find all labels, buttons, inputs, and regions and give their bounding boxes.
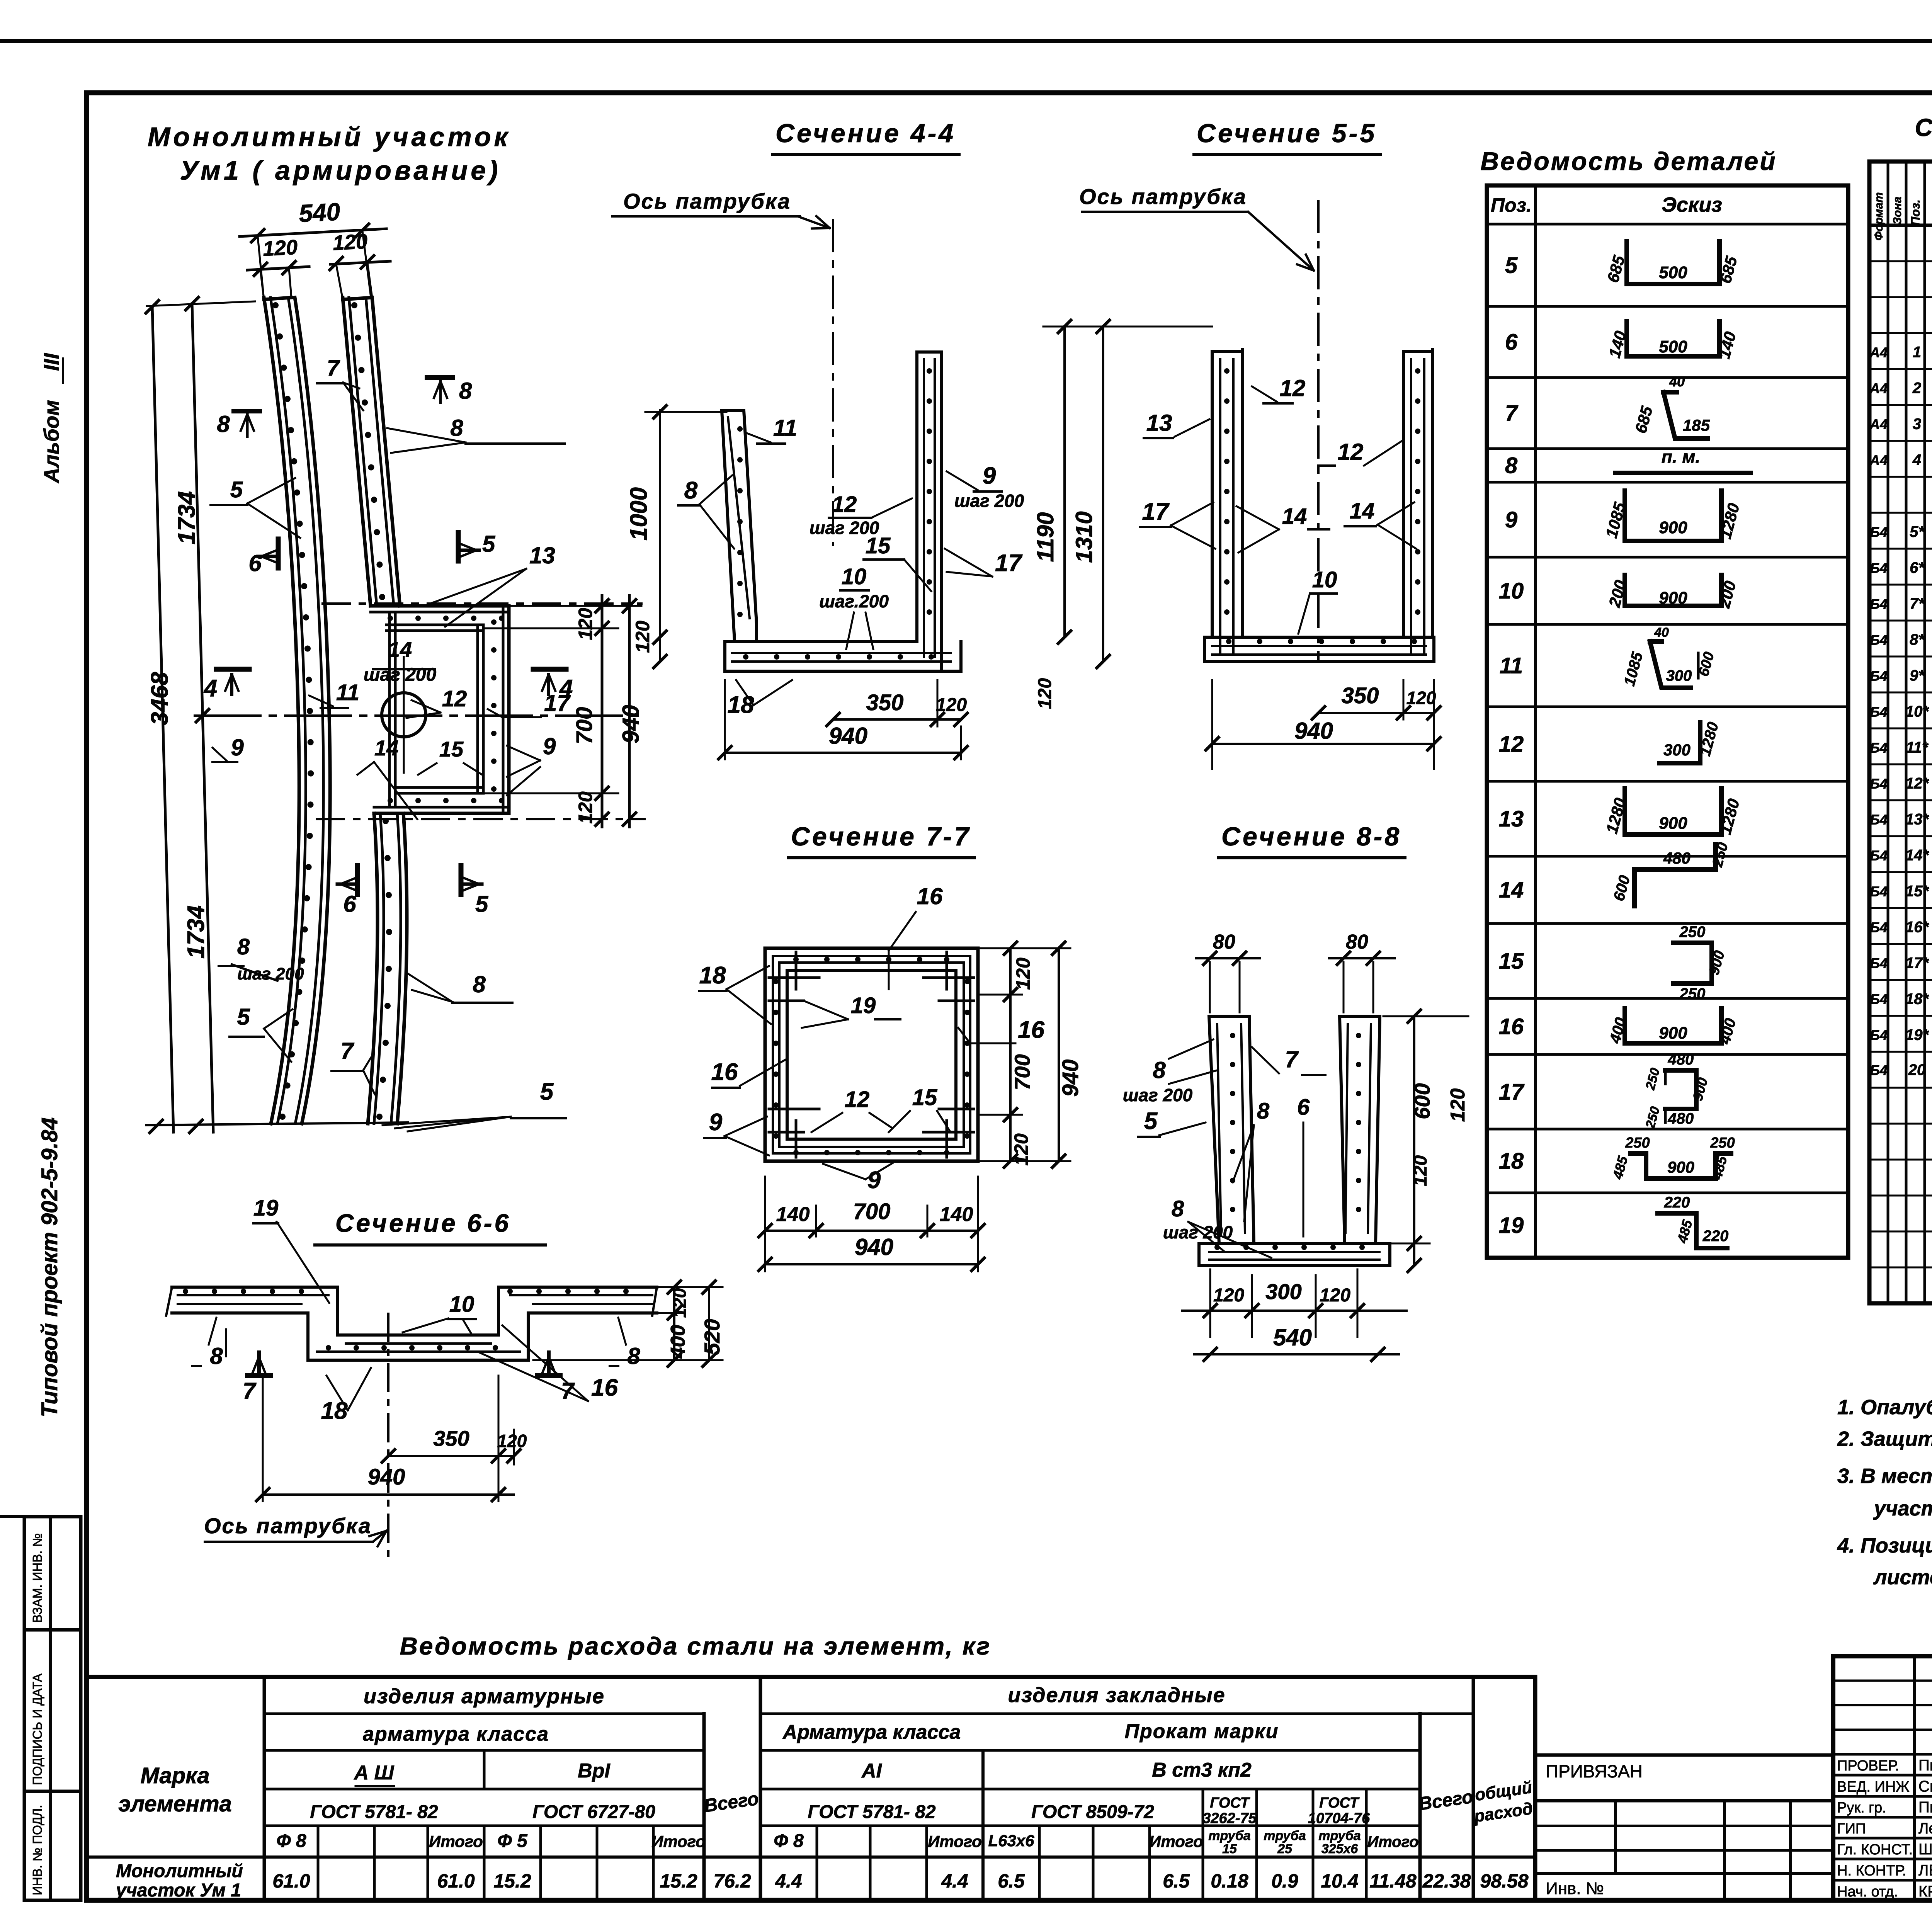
svg-text:Б4: Б4 xyxy=(1870,740,1888,756)
svg-text:40: 40 xyxy=(1654,625,1669,640)
svg-text:Итого: Итого xyxy=(651,1832,706,1850)
svg-text:900: 900 xyxy=(1659,588,1687,607)
svg-text:600: 600 xyxy=(1410,1083,1434,1119)
svg-text:120: 120 xyxy=(1012,957,1034,990)
svg-text:ГОСТ 5781- 82: ГОСТ 5781- 82 xyxy=(310,1802,438,1822)
svg-text:Итого: Итого xyxy=(1149,1832,1203,1850)
sec66 dims right xyxy=(673,1287,675,1360)
svg-text:120: 120 xyxy=(632,621,653,653)
svg-text:12*: 12* xyxy=(1905,775,1929,792)
svg-text:А4: А4 xyxy=(1869,452,1888,468)
svg-text:250: 250 xyxy=(1679,923,1706,940)
svg-text:7*: 7* xyxy=(1910,595,1925,612)
svg-text:120: 120 xyxy=(670,1288,690,1318)
svg-text:15: 15 xyxy=(439,737,464,761)
sec55 left wall xyxy=(1211,352,1214,637)
svg-text:11*: 11* xyxy=(1906,739,1929,756)
title block xyxy=(1833,1656,1932,1900)
svg-text:19: 19 xyxy=(1499,1213,1524,1238)
svg-text:Поз.: Поз. xyxy=(1491,194,1532,216)
plan dim 540 xyxy=(240,229,386,236)
svg-text:Ведомость расхода стали на: Ведомость расхода стали на элемент, кг xyxy=(400,1632,992,1660)
plan dims right 120 700 120 940 xyxy=(601,595,604,827)
svg-text:Б4: Б4 xyxy=(1870,992,1888,1007)
svg-text:120: 120 xyxy=(575,791,596,824)
svg-text:15: 15 xyxy=(912,1085,937,1110)
svg-text:5: 5 xyxy=(1144,1108,1158,1134)
svg-text:8: 8 xyxy=(210,1343,223,1369)
svg-text:Левина: Левина xyxy=(1918,1820,1932,1837)
svg-text:7: 7 xyxy=(243,1378,257,1404)
svg-text:940: 940 xyxy=(618,705,644,743)
svg-text:листе.: листе. xyxy=(1873,1566,1932,1589)
sec44 dim 1000 xyxy=(659,410,661,662)
svg-text:Б4: Б4 xyxy=(1870,812,1888,828)
svg-text:элемента: элемента xyxy=(118,1791,232,1816)
sec55 dims bottom xyxy=(1318,712,1434,714)
svg-text:480: 480 xyxy=(1668,1051,1694,1068)
svg-text:ШАПИРО: ШАПИРО xyxy=(1918,1841,1932,1858)
svg-text:61.0: 61.0 xyxy=(272,1870,310,1892)
svg-text:Монолитный участок: Монолитный участок xyxy=(148,122,511,152)
svg-text:13*: 13* xyxy=(1905,811,1929,828)
svg-text:ГОСТ: ГОСТ xyxy=(1319,1795,1359,1811)
top edge line xyxy=(0,39,1932,43)
svg-text:Ф 8: Ф 8 xyxy=(774,1831,804,1851)
svg-text:17: 17 xyxy=(995,550,1022,577)
svg-text:120: 120 xyxy=(1406,688,1436,708)
svg-text:ЛЕВИНА: ЛЕВИНА xyxy=(1918,1862,1932,1879)
svg-text:6: 6 xyxy=(1297,1095,1310,1120)
svg-text:300: 300 xyxy=(1666,667,1692,684)
svg-text:900: 900 xyxy=(1659,1024,1687,1043)
svg-text:500: 500 xyxy=(1659,263,1687,282)
svg-text:17*: 17* xyxy=(1905,955,1929,972)
svg-text:8: 8 xyxy=(459,378,472,404)
sec77 dims right xyxy=(1009,948,1012,1161)
svg-text:7: 7 xyxy=(1285,1046,1299,1072)
svg-text:16: 16 xyxy=(591,1374,618,1401)
svg-text:1. Опалубочный чертеж см.: 1. Опалубочный чертеж см. лист xyxy=(1837,1396,1932,1419)
plan dims 120 120 top xyxy=(247,267,309,270)
svg-text:шаг 200: шаг 200 xyxy=(237,964,304,983)
svg-text:22.38: 22.38 xyxy=(1422,1870,1471,1892)
svg-text:12: 12 xyxy=(832,492,857,517)
svg-text:9: 9 xyxy=(983,463,996,489)
svg-text:ИНВ. № ПОДЛ.: ИНВ. № ПОДЛ. xyxy=(30,1805,44,1895)
svg-text:325х6: 325х6 xyxy=(1321,1842,1359,1856)
svg-text:350: 350 xyxy=(1342,683,1379,708)
svg-text:0.9: 0.9 xyxy=(1271,1870,1298,1892)
svg-text:8: 8 xyxy=(237,934,250,959)
svg-text:АI: АI xyxy=(861,1760,883,1782)
svg-text:4: 4 xyxy=(1912,452,1921,469)
pipe circle xyxy=(382,693,426,737)
sec44 right wall xyxy=(915,352,918,641)
sec88 slab xyxy=(1199,1242,1390,1245)
svg-text:12: 12 xyxy=(1280,375,1306,401)
svg-text:11: 11 xyxy=(1500,653,1523,679)
section marks 5 xyxy=(456,532,461,561)
svg-text:12: 12 xyxy=(442,686,467,711)
svg-text:4. Позиции * - см. ведомост: 4. Позиции * - см. ведомость деталей на … xyxy=(1837,1534,1932,1557)
plan right wall lower xyxy=(368,813,378,1124)
svg-text:18: 18 xyxy=(321,1398,348,1424)
svg-text:3. В местах излома днища и: 3. В местах излома днища и стен монолитн… xyxy=(1837,1464,1932,1488)
svg-text:Сечение 8-8: Сечение 8-8 xyxy=(1221,822,1401,851)
svg-text:арматура класса: арматура класса xyxy=(363,1723,549,1745)
svg-text:Итого: Итого xyxy=(429,1832,483,1850)
plan bottom extension xyxy=(146,1122,408,1125)
svg-text:Б4: Б4 xyxy=(1870,776,1888,792)
ved table grid xyxy=(1487,185,1848,1258)
fold axis lines xyxy=(323,602,641,605)
svg-text:КРАСАВИН: КРАСАВИН xyxy=(1918,1883,1932,1900)
svg-text:17: 17 xyxy=(1499,1080,1525,1105)
svg-text:16: 16 xyxy=(711,1059,738,1085)
svg-text:ВрI: ВрI xyxy=(578,1760,611,1782)
svg-text:14: 14 xyxy=(374,736,398,760)
svg-text:5: 5 xyxy=(540,1078,554,1105)
svg-text:11: 11 xyxy=(773,415,797,441)
privyazan box xyxy=(1535,1753,1833,1757)
svg-text:700: 700 xyxy=(853,1199,891,1224)
svg-text:ПОДПИСЬ И ДАТА: ПОДПИСЬ И ДАТА xyxy=(30,1673,44,1785)
svg-text:15: 15 xyxy=(1222,1842,1237,1856)
svg-text:Б4: Б4 xyxy=(1870,560,1888,576)
svg-text:ВЗАМ. ИНВ. №: ВЗАМ. ИНВ. № xyxy=(30,1533,44,1623)
svg-text:16: 16 xyxy=(1499,1014,1524,1039)
svg-text:Письман: Письман xyxy=(1918,1799,1932,1816)
svg-text:Б4: Б4 xyxy=(1870,956,1888,971)
svg-text:1734: 1734 xyxy=(183,905,209,959)
svg-text:250: 250 xyxy=(1625,1135,1650,1151)
svg-text:труба: труба xyxy=(1208,1828,1250,1843)
sec55 bottom slab xyxy=(1204,636,1434,639)
svg-text:1: 1 xyxy=(1913,344,1921,361)
sec66 left slab xyxy=(172,1286,338,1289)
svg-text:Эскиз: Эскиз xyxy=(1662,193,1722,216)
svg-text:Марка: Марка xyxy=(140,1763,209,1788)
plan right wall upper xyxy=(343,298,372,299)
svg-text:А4: А4 xyxy=(1869,417,1888,432)
svg-text:3: 3 xyxy=(1913,416,1921,433)
svg-text:2. Защитный слой бетона -: 2. Защитный слой бетона - 20мм. xyxy=(1837,1427,1932,1451)
svg-text:В ст3 кп2: В ст3 кп2 xyxy=(1152,1759,1252,1781)
svg-text:Сечение 6-6: Сечение 6-6 xyxy=(335,1209,511,1237)
svg-text:900: 900 xyxy=(1659,518,1687,537)
svg-text:15.2: 15.2 xyxy=(493,1870,531,1892)
sec88 dims right xyxy=(1413,1016,1415,1265)
svg-text:120: 120 xyxy=(332,230,368,255)
svg-text:Сечение 7-7: Сечение 7-7 xyxy=(791,822,971,851)
svg-text:ПРИВЯЗАН: ПРИВЯЗАН xyxy=(1546,1761,1643,1781)
svg-text:300: 300 xyxy=(1663,741,1690,759)
svg-text:4.4: 4.4 xyxy=(775,1870,802,1892)
svg-text:6: 6 xyxy=(343,891,356,917)
svg-text:300: 300 xyxy=(1265,1279,1301,1304)
svg-text:19: 19 xyxy=(253,1196,279,1221)
svg-text:480: 480 xyxy=(1668,1110,1694,1127)
svg-text:12: 12 xyxy=(1499,732,1524,757)
svg-text:940: 940 xyxy=(855,1234,893,1260)
svg-text:500: 500 xyxy=(1659,337,1687,356)
svg-text:3468: 3468 xyxy=(146,672,173,725)
svg-text:Н. КОНТР.: Н. КОНТР. xyxy=(1837,1863,1906,1879)
svg-text:940: 940 xyxy=(829,723,867,749)
svg-text:изделия арматурные: изделия арматурные xyxy=(364,1685,605,1708)
svg-text:Арматура класса: Арматура класса xyxy=(782,1721,961,1743)
section marks 4 xyxy=(216,667,249,672)
svg-text:220: 220 xyxy=(1664,1194,1690,1211)
sec77 outer square xyxy=(765,948,978,1161)
svg-text:изделия закладные: изделия закладные xyxy=(1008,1684,1225,1707)
svg-text:Б4: Б4 xyxy=(1870,632,1888,648)
svg-text:350: 350 xyxy=(433,1426,469,1451)
svg-text:Б4: Б4 xyxy=(1870,1062,1888,1078)
svg-text:8: 8 xyxy=(627,1343,640,1369)
svg-text:185: 185 xyxy=(1683,416,1710,434)
svg-text:700: 700 xyxy=(572,707,597,745)
svg-text:13: 13 xyxy=(1146,410,1172,436)
svg-text:5: 5 xyxy=(482,531,496,557)
svg-text:120: 120 xyxy=(1410,1155,1431,1186)
svg-text:9: 9 xyxy=(231,735,244,760)
svg-text:ГОСТ 5781- 82: ГОСТ 5781- 82 xyxy=(808,1802,935,1822)
svg-text:120: 120 xyxy=(575,608,596,640)
svg-text:8: 8 xyxy=(684,477,698,504)
steel table grid xyxy=(87,1677,1535,1900)
svg-text:120: 120 xyxy=(1447,1088,1469,1122)
sec77 rebar rings xyxy=(773,956,970,1153)
svg-text:Б4: Б4 xyxy=(1870,920,1888,935)
svg-text:ГОСТ 8509-72: ГОСТ 8509-72 xyxy=(1031,1802,1154,1822)
svg-text:А4: А4 xyxy=(1869,345,1888,361)
svg-text:А Ш: А Ш xyxy=(354,1762,395,1784)
svg-text:13: 13 xyxy=(1499,806,1524,832)
svg-text:Б4: Б4 xyxy=(1870,884,1888,900)
svg-text:76.2: 76.2 xyxy=(713,1870,751,1892)
svg-text:18: 18 xyxy=(699,962,726,989)
svg-text:12: 12 xyxy=(845,1087,870,1112)
svg-text:18: 18 xyxy=(1499,1149,1524,1174)
svg-text:1734: 1734 xyxy=(173,491,200,544)
svg-text:Б4: Б4 xyxy=(1870,596,1888,612)
svg-text:40: 40 xyxy=(1669,374,1685,389)
svg-text:Ось патрубка: Ось патрубка xyxy=(1079,184,1247,209)
svg-text:80: 80 xyxy=(1346,931,1368,953)
svg-text:17: 17 xyxy=(1142,498,1170,525)
svg-text:Зона: Зона xyxy=(1891,197,1904,224)
svg-text:250: 250 xyxy=(1710,1135,1735,1151)
svg-text:540: 540 xyxy=(298,197,341,227)
section marks 6 xyxy=(276,539,281,568)
svg-text:участка Ум1 поз. 8 отогнуть: участка Ум1 поз. 8 отогнуть и обрезать п… xyxy=(1873,1497,1932,1520)
svg-text:8: 8 xyxy=(217,411,230,437)
svg-text:120: 120 xyxy=(936,695,967,715)
svg-text:10: 10 xyxy=(842,564,867,589)
svg-text:5: 5 xyxy=(237,1004,250,1030)
svg-text:7: 7 xyxy=(1505,401,1519,426)
svg-text:10: 10 xyxy=(449,1292,474,1317)
svg-text:8: 8 xyxy=(450,415,463,441)
svg-text:Ось патрубка: Ось патрубка xyxy=(204,1514,372,1538)
svg-text:ГИП: ГИП xyxy=(1837,1821,1866,1837)
svg-text:10: 10 xyxy=(1499,578,1524,604)
svg-text:Б4: Б4 xyxy=(1870,704,1888,720)
svg-text:Б4: Б4 xyxy=(1870,1027,1888,1043)
svg-text:15.2: 15.2 xyxy=(660,1870,697,1892)
svg-text:14: 14 xyxy=(1499,878,1524,903)
svg-text:Сечение 5-5: Сечение 5-5 xyxy=(1197,119,1377,148)
svg-text:250: 250 xyxy=(1679,985,1706,1002)
svg-text:труба: труба xyxy=(1318,1828,1361,1843)
svg-text:1190: 1190 xyxy=(1032,512,1058,562)
svg-text:19*: 19* xyxy=(1905,1027,1929,1044)
svg-text:700: 700 xyxy=(1010,1054,1034,1090)
svg-text:14*: 14* xyxy=(1905,847,1929,864)
svg-text:400: 400 xyxy=(667,1325,689,1359)
svg-text:9: 9 xyxy=(543,733,556,759)
svg-text:Ум1 ( армирование): Ум1 ( армирование) xyxy=(180,155,501,185)
svg-text:4.4: 4.4 xyxy=(941,1870,968,1892)
svg-text:140: 140 xyxy=(776,1203,810,1226)
svg-text:940: 940 xyxy=(368,1464,405,1490)
svg-text:2: 2 xyxy=(1912,380,1921,397)
svg-text:Смыслова: Смыслова xyxy=(1918,1778,1932,1795)
svg-text:1000: 1000 xyxy=(626,487,652,541)
svg-text:6.5: 6.5 xyxy=(1163,1870,1190,1892)
svg-text:61.0: 61.0 xyxy=(437,1870,475,1892)
svg-text:10: 10 xyxy=(1312,567,1337,592)
svg-text:Ф 5: Ф 5 xyxy=(497,1831,528,1851)
svg-text:L63х6: L63х6 xyxy=(988,1832,1034,1850)
svg-text:20: 20 xyxy=(1908,1061,1926,1078)
svg-text:120: 120 xyxy=(497,1431,527,1451)
sec55 dims 1190 1310 xyxy=(1063,327,1066,637)
svg-text:540: 540 xyxy=(1273,1325,1312,1350)
svg-text:7: 7 xyxy=(327,355,340,381)
sec44 left wall xyxy=(722,410,757,641)
plan left wall xyxy=(264,298,291,299)
svg-text:Монолитный: Монолитный xyxy=(116,1861,243,1881)
svg-text:14: 14 xyxy=(1282,504,1307,529)
svg-text:13: 13 xyxy=(529,543,555,568)
svg-text:15: 15 xyxy=(1499,949,1524,974)
sec66 recess xyxy=(306,1313,310,1360)
svg-text:Формат: Формат xyxy=(1872,192,1885,240)
svg-text:16: 16 xyxy=(917,883,943,909)
svg-text:120: 120 xyxy=(1320,1285,1350,1306)
sec55 right wall xyxy=(1402,352,1405,637)
svg-text:п. м.: п. м. xyxy=(1662,447,1700,467)
svg-text:18*: 18* xyxy=(1905,991,1929,1008)
svg-text:шаг.200: шаг.200 xyxy=(819,591,889,611)
svg-text:труба: труба xyxy=(1264,1828,1306,1843)
svg-text:шаг 200: шаг 200 xyxy=(364,665,437,685)
sec66 dims bottom xyxy=(388,1455,514,1457)
svg-text:5*: 5* xyxy=(1910,524,1925,541)
svg-text:8: 8 xyxy=(1257,1099,1270,1124)
svg-text:Инв. №: Инв. № xyxy=(1546,1879,1604,1898)
svg-text:Нач. отд.: Нач. отд. xyxy=(1837,1884,1898,1900)
svg-text:14: 14 xyxy=(1350,498,1375,524)
svg-text:5: 5 xyxy=(475,891,489,917)
svg-text:900: 900 xyxy=(1659,814,1687,833)
svg-text:7: 7 xyxy=(340,1038,354,1064)
svg-text:14: 14 xyxy=(388,637,412,662)
sec66 right slab xyxy=(498,1286,657,1289)
svg-text:Итого: Итого xyxy=(928,1832,982,1850)
svg-text:16*: 16* xyxy=(1905,919,1929,936)
svg-text:9: 9 xyxy=(1505,507,1517,532)
svg-text:Ф 8: Ф 8 xyxy=(276,1831,306,1851)
svg-text:III: III xyxy=(39,352,63,371)
svg-text:940: 940 xyxy=(1058,1060,1083,1097)
sec88 dims top 80 80 xyxy=(1196,957,1260,959)
svg-text:Сечение 4-4: Сечение 4-4 xyxy=(776,119,956,148)
svg-text:3262-75: 3262-75 xyxy=(1202,1810,1257,1827)
svg-text:ВЕД. ИНЖ: ВЕД. ИНЖ xyxy=(1837,1779,1909,1795)
svg-text:11.48: 11.48 xyxy=(1369,1870,1417,1892)
svg-text:480: 480 xyxy=(1663,849,1690,867)
svg-text:6: 6 xyxy=(1505,330,1518,355)
svg-text:4: 4 xyxy=(203,675,217,702)
ved sketches xyxy=(1627,241,1719,284)
sec77 dims bottom xyxy=(765,1230,978,1232)
svg-text:1310: 1310 xyxy=(1071,511,1097,563)
svg-text:8: 8 xyxy=(1172,1196,1184,1221)
svg-text:Рук. гр.: Рук. гр. xyxy=(1837,1800,1886,1816)
svg-text:ГОСТ 6727-80: ГОСТ 6727-80 xyxy=(532,1802,655,1822)
svg-text:6*: 6* xyxy=(1910,560,1925,577)
svg-text:520: 520 xyxy=(700,1319,724,1355)
svg-text:350: 350 xyxy=(866,690,904,715)
svg-text:940: 940 xyxy=(1294,718,1333,744)
svg-text:ПРОВЕР.: ПРОВЕР. xyxy=(1837,1758,1899,1774)
svg-text:25: 25 xyxy=(1277,1842,1293,1856)
svg-text:16: 16 xyxy=(1018,1017,1044,1043)
svg-text:8*: 8* xyxy=(1910,631,1925,648)
svg-text:Б4: Б4 xyxy=(1870,524,1888,540)
svg-text:шаг 200: шаг 200 xyxy=(1163,1222,1233,1242)
svg-text:участок Ум 1: участок Ум 1 xyxy=(115,1880,241,1901)
spec table grid xyxy=(1869,162,1932,1303)
svg-text:Типовой проект 902-5-9.84: Типовой проект 902-5-9.84 xyxy=(37,1117,62,1417)
svg-text:0.18: 0.18 xyxy=(1211,1870,1248,1892)
svg-text:Б4: Б4 xyxy=(1870,668,1888,684)
svg-text:6.5: 6.5 xyxy=(998,1870,1025,1892)
svg-text:5: 5 xyxy=(230,477,243,502)
svg-text:15: 15 xyxy=(866,533,891,558)
svg-text:120: 120 xyxy=(1035,678,1055,709)
svg-text:Альбом: Альбом xyxy=(39,400,63,484)
svg-text:Итого: Итого xyxy=(1367,1833,1418,1850)
svg-text:120: 120 xyxy=(262,236,298,261)
svg-text:Прокат марки: Прокат марки xyxy=(1125,1720,1279,1743)
svg-text:9: 9 xyxy=(709,1109,723,1136)
svg-text:Ведомость деталей: Ведомость деталей xyxy=(1480,147,1777,175)
sec88 walls xyxy=(1209,1016,1254,1243)
svg-text:17: 17 xyxy=(544,690,571,716)
plan bump channel xyxy=(371,604,509,608)
sec66 axis xyxy=(387,1314,389,1565)
svg-text:900: 900 xyxy=(1667,1158,1694,1176)
sec44 bottom slab xyxy=(725,640,917,643)
svg-text:19: 19 xyxy=(851,993,876,1018)
svg-text:120: 120 xyxy=(1010,1133,1032,1166)
svg-text:8: 8 xyxy=(1505,453,1518,478)
